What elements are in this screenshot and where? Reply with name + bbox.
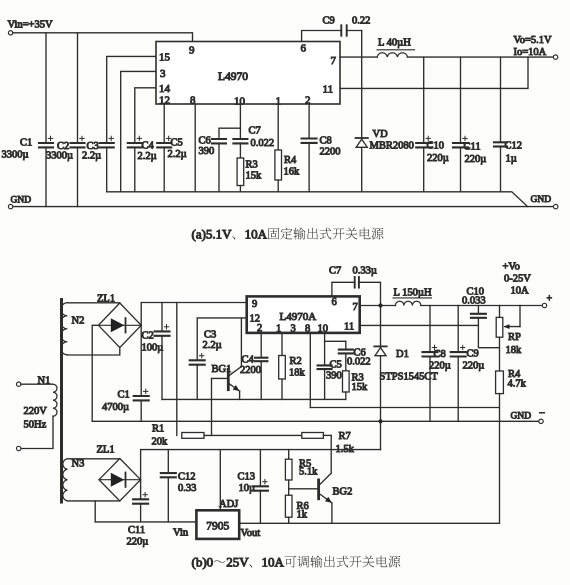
resistor R4 — [275, 150, 282, 180]
capacitor C10 — [416, 142, 431, 144]
wire R4 to ground rail — [277, 180, 279, 192]
svg-text:10A: 10A — [245, 227, 268, 242]
capacitor C11 — [453, 142, 468, 144]
svg-text:0.022: 0.022 — [347, 357, 371, 368]
svg-text:N3: N3 — [72, 459, 85, 470]
capacitor C2 100u — [155, 330, 170, 332]
wire bridge- drop to Vin rail — [94, 501, 96, 522]
inductor L 150uH — [395, 301, 421, 305]
wire C3 to ground rail — [106, 147, 108, 191]
wire C8 to ground rail — [308, 143, 310, 192]
wire base node to R6 — [288, 489, 290, 495]
terminal Vo output — [553, 55, 557, 59]
svg-text:C7: C7 — [249, 126, 261, 137]
svg-text:15k: 15k — [246, 171, 263, 182]
svg-text:100µ: 100µ — [142, 343, 164, 354]
svg-text:2: 2 — [257, 323, 262, 334]
svg-text:2200: 2200 — [240, 365, 261, 376]
svg-text:0-25V: 0-25V — [504, 274, 531, 285]
svg-text:C4: C4 — [142, 141, 155, 152]
capacitor C7 bootstrap (b) — [354, 277, 356, 288]
capacitor C5 — [157, 142, 171, 144]
svg-text:4700µ: 4700µ — [102, 402, 129, 413]
wire pin 8 down — [309, 333, 311, 408]
svg-text:6: 6 — [332, 297, 337, 308]
svg-text:Vin: Vin — [173, 528, 189, 539]
svg-text:C8: C8 — [434, 349, 446, 360]
resistor R3 — [237, 158, 244, 186]
wire pin 2 to C8 — [308, 104, 310, 139]
wire C7 to switch node — [359, 282, 381, 305]
svg-text:18k: 18k — [289, 368, 306, 379]
svg-text:C8: C8 — [320, 136, 332, 147]
node switch junction — [378, 303, 382, 307]
wire N2 top to bridge — [67, 302, 119, 304]
wire inductor to output — [408, 56, 554, 58]
wire N2 bottom to bridge — [67, 347, 119, 355]
svg-text:C10: C10 — [427, 141, 445, 152]
svg-text:0.33: 0.33 — [178, 483, 196, 494]
svg-text:220µ: 220µ — [429, 361, 451, 372]
svg-text:20k: 20k — [152, 437, 169, 448]
svg-text:9: 9 — [252, 299, 257, 310]
svg-text:L4970A: L4970A — [280, 311, 317, 323]
svg-text:L4970: L4970 — [218, 71, 248, 83]
wire pin 14 to C4 — [135, 88, 156, 143]
resistor R2 — [279, 356, 286, 380]
transistor BG2 collector — [320, 473, 332, 485]
svg-text:6: 6 — [301, 43, 307, 55]
winding N2 secondary — [61, 303, 68, 355]
transistor BG1 emitter — [229, 384, 239, 391]
svg-text:BG2: BG2 — [333, 487, 353, 498]
wire to C5 — [324, 341, 326, 365]
svg-text:R2: R2 — [290, 356, 302, 367]
RP wiper arrow — [505, 326, 520, 328]
resistor R3 (b) — [343, 371, 350, 392]
svg-text:7: 7 — [353, 302, 358, 313]
wire switch node vertical — [361, 31, 363, 139]
svg-text:220µ: 220µ — [427, 153, 449, 164]
wire R1 to R7 — [204, 434, 302, 436]
wire pin 10 down — [239, 104, 241, 139]
terminal N1 bottom — [17, 446, 21, 450]
svg-text:2.2µ: 2.2µ — [168, 149, 187, 160]
wire 7905 Vout line — [239, 522, 499, 524]
wire R2 to signal ground — [281, 379, 283, 399]
svg-text:12: 12 — [159, 95, 170, 107]
capacitor C12 0.33 — [161, 472, 176, 474]
svg-text:GND: GND — [11, 196, 32, 206]
diode D1 STPS1545CT — [374, 345, 386, 347]
svg-text:390: 390 — [199, 146, 215, 157]
wire inductor to +Vo — [421, 305, 543, 307]
svg-text:ZL1: ZL1 — [97, 445, 115, 456]
svg-text:2200: 2200 — [320, 147, 341, 158]
capacitor C9 wire (b) — [457, 306, 459, 353]
wire BG1 base — [212, 377, 228, 379]
capacitor C4 2200 — [255, 357, 267, 359]
svg-text:10: 10 — [318, 324, 329, 335]
capacitor C1 filter wire — [140, 325, 142, 396]
op-amp U1 L4970 regulator box — [156, 42, 340, 105]
capacitor C6 — [212, 138, 226, 140]
capacitor C9 bootstrap — [340, 25, 342, 35]
capacitor C5 390 — [318, 364, 332, 366]
wire N1 bottom — [21, 416, 53, 449]
svg-text:D1: D1 — [396, 349, 409, 360]
capacitor C7 — [233, 138, 247, 140]
capacitor C8 220u (b) — [423, 351, 438, 353]
winding N3 secondary — [63, 459, 68, 501]
svg-text:C12: C12 — [505, 141, 523, 152]
svg-text:C13: C13 — [238, 472, 256, 483]
svg-text:25V: 25V — [226, 555, 249, 570]
svg-text:C11: C11 — [464, 142, 481, 153]
wire R5 to BG2 base — [288, 480, 290, 489]
svg-text:10A: 10A — [262, 555, 285, 570]
regulator U3 7905 box — [196, 510, 239, 539]
svg-text:Vo=5.1V: Vo=5.1V — [514, 35, 553, 46]
capacitor C13 10u — [253, 485, 268, 487]
wire C7 to R3 — [239, 143, 241, 158]
svg-text:14: 14 — [159, 83, 171, 95]
wire pin 7 to inductor — [340, 56, 377, 58]
wire pin 11 feedback (b) — [360, 324, 479, 326]
svg-text:220µ: 220µ — [463, 361, 485, 372]
svg-text:GND: GND — [531, 195, 552, 205]
svg-text:–: – — [539, 408, 546, 419]
svg-text:8: 8 — [305, 324, 310, 335]
capacitor C8 wire (b) — [429, 306, 431, 353]
svg-text:7: 7 — [331, 55, 337, 67]
diode VD MBR2080 — [356, 137, 368, 139]
svg-text:9: 9 — [189, 45, 195, 57]
capacitor C9 220u (b) — [451, 351, 466, 353]
wire pin 15 to C3 — [107, 56, 156, 143]
wire R7 to BG2 collector — [323, 434, 331, 436]
wire C3 to signal ground — [196, 365, 198, 400]
svg-text:R1: R1 — [152, 424, 164, 435]
svg-text:MBR2080: MBR2080 — [370, 141, 414, 152]
resistor R4 (b) — [496, 371, 504, 394]
svg-text:220µ: 220µ — [465, 154, 487, 165]
svg-text:N2: N2 — [72, 316, 85, 327]
potentiometer RP — [496, 317, 503, 337]
svg-text:C3: C3 — [204, 330, 216, 341]
wire rail4 to R5 — [288, 450, 290, 460]
wire C6 to ground rail — [218, 143, 220, 191]
wire C4 to ground rail — [134, 147, 136, 191]
svg-text:(a)5.1V: (a)5.1V — [192, 227, 233, 242]
capacitor C8 — [302, 137, 317, 139]
svg-text:C4: C4 — [242, 355, 255, 366]
svg-text:C2: C2 — [142, 331, 154, 342]
wire R1 riser from +35V rail — [176, 303, 178, 436]
svg-text:5.1k: 5.1k — [299, 467, 318, 478]
wire pin10 branch to C6 — [219, 128, 240, 139]
wire rail5 to 7905 Vin — [95, 521, 196, 523]
capacitor C10 wire — [423, 57, 425, 143]
op-amp U2 L4970A regulator box — [247, 296, 360, 333]
wire bridge+ riser to rail4 — [140, 450, 142, 480]
svg-text:0.033: 0.033 — [462, 295, 486, 306]
svg-text:0.33µ: 0.33µ — [353, 266, 377, 277]
wire rail2 pin8 ground — [310, 407, 499, 409]
capacitor C4 — [128, 142, 142, 144]
svg-text:Vin=+35V: Vin=+35V — [8, 20, 53, 31]
svg-text:15k: 15k — [352, 382, 369, 393]
wire bridge left vertex jog to ground rail — [92, 325, 98, 421]
svg-text:4.7k: 4.7k — [508, 379, 527, 390]
signal ground rail1 — [162, 398, 346, 400]
svg-text:2.2µ: 2.2µ — [203, 340, 222, 351]
wire bridge + output riser to pin 9 — [141, 303, 247, 326]
svg-text:50Hz: 50Hz — [24, 420, 47, 431]
capacitor C12 wire — [500, 57, 502, 142]
bridge rectifier ZL1 (lower) — [99, 459, 141, 501]
terminal Vin input — [8, 31, 12, 35]
svg-text:C5: C5 — [330, 360, 342, 371]
capacitor C1 4700u — [134, 395, 149, 397]
capacitor C10 0.033 — [471, 313, 486, 315]
transistor BG2 emitter — [320, 494, 332, 503]
wire C6 to R3 — [345, 353, 347, 370]
wire C4 to signal ground — [260, 361, 262, 399]
wire Vin rail to pin 9 — [13, 33, 193, 42]
svg-text:R4: R4 — [284, 155, 297, 166]
capacitor C2 wire — [77, 33, 79, 143]
svg-text:1k: 1k — [297, 510, 308, 521]
resistor R6 — [285, 495, 292, 517]
svg-text:10µ: 10µ — [239, 483, 256, 494]
transistor BG1 base bar — [227, 369, 230, 389]
ground rail bottom — [13, 206, 554, 208]
svg-text:Vout: Vout — [241, 528, 261, 539]
wire pin 8 to ground rail — [194, 104, 196, 192]
svg-text:3300µ: 3300µ — [46, 151, 73, 162]
wire N3 bottom to bridge — [67, 500, 119, 502]
svg-text:ADJ: ADJ — [219, 499, 238, 510]
wire R3 to ground rail — [239, 186, 241, 192]
svg-text:C1: C1 — [20, 138, 32, 149]
transformer core — [60, 300, 63, 503]
svg-text:1µ: 1µ — [506, 154, 517, 165]
terminal GND (b) — [539, 419, 543, 423]
svg-text:0.022: 0.022 — [251, 138, 275, 149]
capacitor C12 — [494, 141, 507, 143]
svg-text:ZL1: ZL1 — [97, 294, 115, 305]
capacitor C6 0.022 — [339, 349, 353, 351]
wire N1 top — [21, 383, 53, 385]
svg-text:+: + — [547, 294, 553, 305]
capacitor C2 wire — [161, 303, 163, 332]
capacitor C3 — [100, 142, 114, 144]
diode D1 wire — [380, 306, 382, 347]
node D1 ground junction — [378, 419, 382, 423]
svg-text:390: 390 — [326, 371, 342, 382]
wire C5 to signal ground — [324, 369, 326, 399]
svg-text:C1: C1 — [118, 390, 130, 401]
ground rail3 — [92, 420, 539, 422]
svg-text:10A: 10A — [511, 286, 530, 297]
svg-text:2.2µ: 2.2µ — [82, 151, 101, 162]
wire pin 7 to inductor (b) — [360, 305, 396, 307]
wire pin 1 to R2 — [281, 333, 283, 356]
capacitor C10 wire (b) — [477, 306, 479, 314]
svg-text:R3: R3 — [246, 160, 258, 171]
wire pin 1 to R4 — [277, 104, 279, 150]
transistor BG2 base bar — [317, 480, 320, 499]
terminal GND left — [8, 204, 12, 208]
wire BG2 base — [289, 488, 318, 490]
wire R6 to Vout line — [288, 517, 290, 523]
wire pin 12 to C5 — [163, 104, 165, 143]
capacitor C2 — [71, 142, 85, 144]
terminal +Vo — [542, 303, 546, 307]
bridge rectifier ZL1 (upper) — [98, 303, 141, 348]
svg-text:C7: C7 — [329, 266, 341, 277]
wire R3 to signal ground — [345, 392, 347, 399]
svg-text:15: 15 — [159, 52, 171, 64]
svg-text:(b)0: (b)0 — [192, 555, 214, 570]
svg-text:R7: R7 — [339, 431, 351, 442]
capacitor C3 2.2u — [190, 359, 205, 361]
svg-text:RP: RP — [508, 332, 521, 343]
capacitor C1 — [39, 142, 53, 144]
capacitor C13 wire (b) — [259, 450, 261, 487]
svg-text:BG1: BG1 — [212, 364, 232, 375]
wire N3 top to bridge — [67, 458, 119, 460]
svg-text:16k: 16k — [284, 167, 301, 178]
svg-text:C9: C9 — [467, 349, 479, 360]
terminal GND right — [554, 204, 558, 208]
transistor BG1 collector wire — [229, 318, 241, 376]
terminal N1 top — [17, 382, 21, 386]
wire ADJ riser — [219, 450, 221, 511]
capacitor C11 wire — [460, 57, 462, 143]
wire C9 to switch node — [347, 30, 362, 32]
capacitor C11 220u (b) — [133, 498, 148, 500]
resistor R1 — [182, 433, 204, 439]
wire R4 down to -5V line — [499, 394, 501, 524]
wire pin 2 to C4 — [260, 333, 262, 358]
wire RP to R4 — [499, 337, 501, 371]
capacitor C11 wire (b) — [140, 480, 142, 500]
svg-text:7905: 7905 — [206, 521, 229, 533]
svg-text:Io=10A: Io=10A — [514, 47, 547, 58]
svg-text:VD: VD — [373, 129, 389, 140]
svg-text:L 150µH: L 150µH — [394, 287, 432, 298]
wire pin 3 to ground rail — [121, 71, 156, 191]
svg-text:+Vo: +Vo — [503, 262, 520, 273]
svg-text:2.2µ: 2.2µ — [138, 151, 157, 162]
capacitor C12 wire (b) — [167, 450, 169, 474]
svg-text:1: 1 — [276, 324, 281, 335]
svg-text:11: 11 — [323, 84, 334, 96]
svg-text:3300µ: 3300µ — [2, 150, 29, 161]
svg-text:11: 11 — [344, 322, 354, 333]
rail4 common from lower bridge — [141, 449, 381, 451]
svg-text:220µ: 220µ — [127, 537, 149, 548]
svg-text:C5: C5 — [171, 138, 183, 149]
svg-text:C11: C11 — [128, 525, 145, 536]
wire pin 12 to C3 — [197, 318, 247, 360]
wire pin 6 riser to C7 — [332, 282, 355, 296]
svg-text:3: 3 — [291, 324, 296, 335]
svg-text:220V: 220V — [24, 406, 48, 417]
wire C5 to ground rail — [163, 147, 165, 191]
ground rail inner — [107, 192, 528, 207]
wire BG1 base riser to R1 node — [211, 378, 213, 435]
svg-text:L 40µH: L 40µH — [378, 38, 411, 49]
svg-text:3: 3 — [160, 68, 166, 80]
svg-text:C12: C12 — [178, 472, 196, 483]
svg-text:GND: GND — [511, 412, 532, 422]
svg-text:C6: C6 — [199, 136, 211, 147]
svg-text:0.22: 0.22 — [352, 16, 370, 27]
svg-text:C9: C9 — [323, 16, 335, 27]
wire to C6 — [345, 341, 347, 349]
capacitor C1 wire — [45, 33, 47, 143]
winding N1 primary — [53, 384, 57, 416]
wire C10 to FB node — [478, 318, 499, 348]
resistor R7 — [302, 433, 324, 439]
wire pin 11 feedback — [340, 57, 528, 88]
wire pin 6 riser to C9 — [302, 31, 342, 42]
wire pin 10 tee — [325, 333, 346, 341]
resistor R5 — [285, 459, 292, 480]
wire VD anode to ground rail — [361, 148, 363, 192]
inductor L 40uH — [377, 53, 407, 57]
wire output to RP top — [499, 306, 501, 318]
svg-text:N1: N1 — [38, 376, 51, 387]
svg-text:18k: 18k — [506, 345, 523, 356]
wire D1 anode down to rail4 — [380, 356, 382, 450]
